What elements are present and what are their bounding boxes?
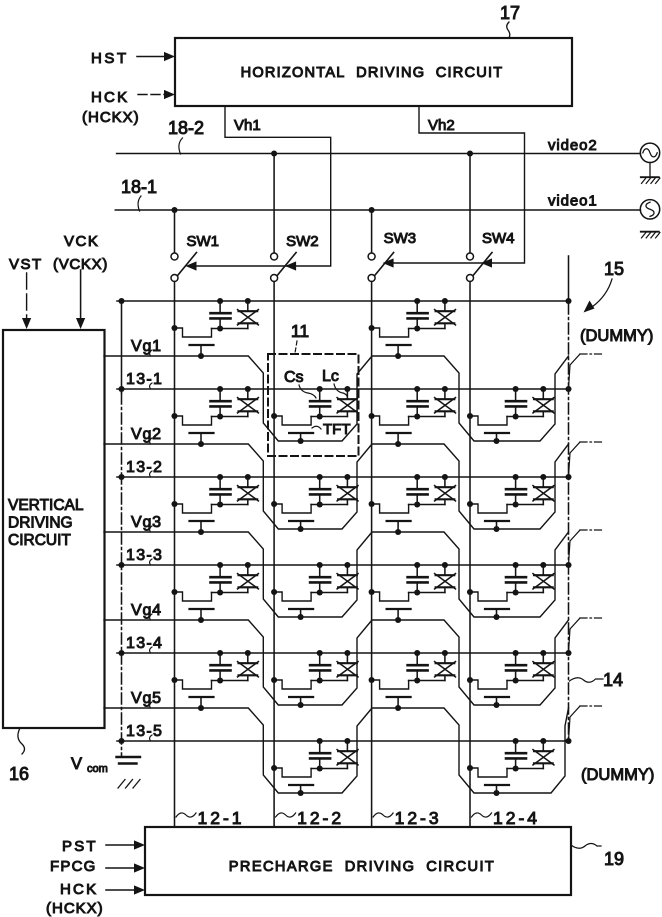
power Vcom symbol xyxy=(71,755,140,788)
junction TFT source tap on column (pixel row 6, col 4) xyxy=(467,765,473,771)
wire gate line Vg5 zigzag xyxy=(104,708,569,793)
liquid crystal Lc element (pixel row 4, col 1) xyxy=(238,565,259,593)
wire cell storage node (pixel row 3, col 3) xyxy=(409,504,445,506)
wire cell storage node (pixel row 5, col 1) xyxy=(212,680,248,682)
capacitor Cs lead (pixel row 5, col 3) xyxy=(416,653,418,665)
svg-text:HCK: HCK xyxy=(91,89,129,106)
input HCK label xyxy=(91,89,129,106)
label 13-5 with leader xyxy=(126,723,163,741)
liquid crystal Lc element (pixel row 2, col 1) xyxy=(238,389,259,417)
junction Cs top (pixel row 4, col 2) xyxy=(317,562,323,568)
junction Lc top (pixel row 2, col 1) xyxy=(245,386,251,392)
wire cell storage node (pixel row 2, col 4) xyxy=(507,416,543,418)
label 18-2 with leader xyxy=(168,118,204,154)
svg-text:HCK: HCK xyxy=(60,881,98,898)
transistor TFT gate (pixel row 5, col 3) xyxy=(387,697,411,708)
junction TFT gate on gate line (pixel row 5, col 3) xyxy=(395,705,401,711)
capacitor Cs plates (pixel row 2, col 1) xyxy=(211,401,231,416)
junction TFT gate on gate line (pixel row 4, col 4) xyxy=(493,614,499,620)
input VST label xyxy=(9,256,43,273)
capacitor Cs plates (pixel row 5, col 2) xyxy=(310,665,330,680)
junction Cs bottom (pixel row 3, col 4) xyxy=(513,501,519,507)
wire cell storage node (pixel row 4, col 4) xyxy=(507,592,543,594)
junction TFT gate on gate line (pixel row 4, col 3) xyxy=(395,617,401,623)
junction TFT gate on gate line (pixel row 3, col 1) xyxy=(198,529,204,535)
label 12-2 with leader xyxy=(276,808,345,828)
junction SW1 on video1 xyxy=(171,207,177,213)
transistor TFT source/drain (pixel row 6, col 4) xyxy=(470,768,507,777)
junction TFT source tap on column (pixel row 4, col 2) xyxy=(271,589,277,595)
transistor TFT gate (pixel row 2, col 4) xyxy=(485,433,509,441)
junction SW2 on video2 xyxy=(271,150,277,156)
svg-text:12-3: 12-3 xyxy=(395,808,442,828)
junction Cs bottom (pixel row 3, col 2) xyxy=(317,501,323,507)
transistor TFT source/drain (pixel row 5, col 4) xyxy=(470,680,507,689)
capacitor Cs plates (pixel row 3, col 2) xyxy=(310,489,330,504)
transistor TFT gate (pixel row 3, col 2) xyxy=(289,521,313,529)
label video1 xyxy=(548,193,598,210)
svg-text:video2: video2 xyxy=(548,137,598,154)
dashed unit pixel box 11 xyxy=(268,354,359,456)
junction Cs top (pixel row 5, col 1) xyxy=(217,650,223,656)
label Lc with leader xyxy=(322,368,347,396)
junction Lc top (pixel row 5, col 2) xyxy=(344,650,350,656)
transistor TFT gate (pixel row 4, col 1) xyxy=(190,609,214,620)
junction Lc top (pixel row 4, col 1) xyxy=(245,562,251,568)
junction TFT source tap on column (pixel row 6, col 2) xyxy=(271,765,277,771)
capacitor Cs lead (pixel row 3, col 1) xyxy=(219,477,221,489)
junction Vcom bus / 13-1 xyxy=(118,386,124,392)
vertical driving circuit U16 box xyxy=(3,330,105,728)
liquid crystal Lc element (pixel row 5, col 1) xyxy=(238,653,259,681)
svg-text:SW4: SW4 xyxy=(482,230,515,247)
svg-text:14: 14 xyxy=(603,670,623,690)
junction Cs top (pixel row 3, col 4) xyxy=(513,474,519,480)
wire cell storage node (pixel row 5, col 2) xyxy=(311,680,347,682)
capacitor Cs lead (pixel row 1, col 1) xyxy=(219,301,221,313)
transistor TFT source/drain (pixel row 1, col 1) xyxy=(175,328,212,337)
transistor TFT gate (pixel row 2, col 2) xyxy=(289,433,313,441)
junction TFT gate on gate line (pixel row 2, col 1) xyxy=(198,441,204,447)
junction Lc top (pixel row 3, col 4) xyxy=(540,474,546,480)
capacitor Cs lead (pixel row 4, col 2) xyxy=(319,565,321,577)
input FPCG label xyxy=(50,858,96,875)
junction Vcom bus / 13-2 xyxy=(118,474,124,480)
capacitor Cs plates (pixel row 3, col 1) xyxy=(211,489,231,504)
svg-text:CIRCUIT: CIRCUIT xyxy=(8,532,71,549)
label Cs with leader xyxy=(284,369,316,398)
liquid crystal Lc element (pixel row 6, col 2) xyxy=(337,741,358,769)
label TFT with leader xyxy=(312,421,351,438)
svg-text:PST: PST xyxy=(62,838,98,855)
transistor TFT source/drain (pixel row 5, col 1) xyxy=(175,680,212,689)
junction Cs bottom (pixel row 4, col 4) xyxy=(513,589,519,595)
liquid crystal Lc element (pixel row 4, col 2) xyxy=(337,565,358,593)
liquid crystal Lc element (pixel row 1, col 1) xyxy=(238,301,259,329)
switch SW2 xyxy=(271,154,297,282)
capacitor Cs plates (pixel row 5, col 1) xyxy=(211,665,231,680)
liquid crystal Lc element (pixel row 3, col 3) xyxy=(435,477,456,505)
wire storage line 13-1 xyxy=(117,388,569,390)
transistor TFT source/drain (pixel row 5, col 3) xyxy=(372,680,409,689)
wire signal line 12-3 xyxy=(371,282,373,828)
capacitor Cs lead (pixel row 2, col 4) xyxy=(515,389,517,401)
junction TFT source tap on column (pixel row 5, col 1) xyxy=(171,677,177,683)
junction Lc top (pixel row 6, col 4) xyxy=(540,738,546,744)
junction TFT gate on gate line (pixel row 1, col 3) xyxy=(395,353,401,359)
label 13-1 with leader xyxy=(126,371,163,389)
junction TFT gate on gate line (pixel row 3, col 3) xyxy=(395,529,401,535)
svg-text:12-1: 12-1 xyxy=(198,808,245,828)
svg-text:SW1: SW1 xyxy=(187,233,220,250)
junction Cs top (pixel row 2, col 4) xyxy=(513,386,519,392)
capacitor Cs plates (pixel row 6, col 4) xyxy=(506,753,526,768)
label Vh2 xyxy=(428,117,455,134)
transistor TFT gate (pixel row 4, col 3) xyxy=(387,609,411,620)
junction Lc top (pixel row 4, col 4) xyxy=(540,562,546,568)
junction Vcom bus / 13-4 xyxy=(118,650,124,656)
junction TFT source tap on column (pixel row 1, col 3) xyxy=(369,325,375,331)
junction Lc top (pixel row 2, col 4) xyxy=(540,386,546,392)
svg-text:16: 16 xyxy=(9,764,29,784)
junction Lc top (pixel row 2, col 3) xyxy=(442,386,448,392)
capacitor Cs plates (pixel row 3, col 3) xyxy=(408,489,428,504)
junction TFT gate on gate line (pixel row 2, col 3) xyxy=(395,441,401,447)
transistor TFT gate (pixel row 5, col 2) xyxy=(289,697,313,705)
junction Cs top (pixel row 5, col 4) xyxy=(513,650,519,656)
label Vg3 with leader xyxy=(131,514,162,532)
junction Cs bottom (pixel row 4, col 3) xyxy=(414,589,420,595)
input PST label xyxy=(62,838,98,855)
junction Cs top (pixel row 2, col 1) xyxy=(217,386,223,392)
junction Cs bottom (pixel row 6, col 4) xyxy=(513,765,519,771)
junction Cs bottom (pixel row 3, col 3) xyxy=(414,501,420,507)
label 12-1 with leader xyxy=(176,808,245,828)
transistor TFT source/drain (pixel row 3, col 3) xyxy=(372,504,409,513)
transistor TFT gate (pixel row 5, col 1) xyxy=(190,697,214,708)
junction TFT source tap on column (pixel row 1, col 1) xyxy=(171,325,177,331)
wire top dummy storage line xyxy=(117,300,569,302)
wire VCK arrow xyxy=(76,270,85,329)
label SW3 xyxy=(384,230,417,247)
transistor TFT source/drain (pixel row 4, col 1) xyxy=(175,592,212,601)
input HCK bottom label xyxy=(60,881,98,898)
liquid crystal Lc element (pixel row 2, col 3) xyxy=(435,389,456,417)
junction Cs top (pixel row 6, col 2) xyxy=(317,738,323,744)
wire gate line Vg3 zigzag xyxy=(104,532,569,617)
svg-text:SW3: SW3 xyxy=(384,230,417,247)
junction TFT source tap on column (pixel row 5, col 4) xyxy=(467,677,473,683)
capacitor Cs plates (pixel row 4, col 4) xyxy=(506,577,526,592)
junction Cs top (pixel row 2, col 3) xyxy=(414,386,420,392)
junction TFT source tap on column (pixel row 3, col 3) xyxy=(369,501,375,507)
svg-text:12-2: 12-2 xyxy=(297,808,344,828)
junction Cs bottom (pixel row 2, col 1) xyxy=(217,413,223,419)
wire gate line Vg1 zigzag xyxy=(104,356,569,441)
input (VCKX) label xyxy=(53,256,108,273)
wire row continuation stub at 13-1 xyxy=(569,354,605,389)
wire signal line 12-1 xyxy=(174,282,176,828)
junction TFT gate on gate line (pixel row 1, col 1) xyxy=(198,353,204,359)
liquid crystal Lc element (pixel row 3, col 1) xyxy=(238,477,259,505)
junction SW4 on video2 xyxy=(467,150,473,156)
svg-text:(DUMMY): (DUMMY) xyxy=(581,766,654,784)
label 18-1 with leader xyxy=(121,177,157,211)
label 17 with leader xyxy=(500,3,520,38)
wire cell storage node (pixel row 1, col 1) xyxy=(212,328,248,330)
node video2 line 18-2 xyxy=(117,153,641,155)
wire cell storage node (pixel row 5, col 4) xyxy=(507,680,543,682)
switch SW3 xyxy=(368,210,394,282)
svg-text:Vg5: Vg5 xyxy=(131,690,162,707)
junction Cs bottom (pixel row 5, col 4) xyxy=(513,677,519,683)
capacitor Cs lead (pixel row 2, col 1) xyxy=(219,389,221,401)
junction Lc top (pixel row 1, col 3) xyxy=(442,298,448,304)
junction Cs top (pixel row 5, col 2) xyxy=(317,650,323,656)
wire VST arrow xyxy=(22,273,31,329)
svg-text:13-3: 13-3 xyxy=(126,547,163,564)
wire cell storage node (pixel row 4, col 2) xyxy=(311,592,347,594)
label 11 with dashed leader xyxy=(291,321,309,353)
wire cell storage node (pixel row 3, col 2) xyxy=(311,504,347,506)
junction Lc top (pixel row 5, col 3) xyxy=(442,650,448,656)
junction right line / 13-2 xyxy=(565,474,571,480)
svg-text:Vh1: Vh1 xyxy=(234,117,261,134)
label Vg2 with leader xyxy=(131,426,162,444)
junction Cs top (pixel row 4, col 4) xyxy=(513,562,519,568)
transistor TFT gate (pixel row 3, col 3) xyxy=(387,521,411,532)
junction right line / 13-4 xyxy=(565,650,571,656)
liquid crystal Lc element (pixel row 1, col 3) xyxy=(435,301,456,329)
svg-text:com: com xyxy=(87,763,108,775)
junction TFT gate on gate line (pixel row 6, col 2) xyxy=(298,790,304,796)
capacitor Cs lead (pixel row 2, col 3) xyxy=(416,389,418,401)
transistor TFT source/drain (pixel row 2, col 1) xyxy=(175,416,212,425)
svg-text:Lc: Lc xyxy=(322,368,339,385)
wire row continuation stub at 13-3 xyxy=(569,530,605,565)
junction Vcom bus / top line xyxy=(118,298,124,304)
liquid crystal Lc element (pixel row 5, col 3) xyxy=(435,653,456,681)
svg-text:SW2: SW2 xyxy=(286,233,319,250)
wire FPCG arrow xyxy=(106,863,145,872)
liquid crystal Lc element (pixel row 2, col 4) xyxy=(533,389,554,417)
junction TFT source tap on column (pixel row 2, col 1) xyxy=(171,413,177,419)
junction Cs top (pixel row 2, col 2) xyxy=(317,386,323,392)
label 13-4 with leader xyxy=(126,635,163,653)
capacitor Cs lead (pixel row 6, col 4) xyxy=(515,741,517,753)
transistor TFT source/drain (pixel row 3, col 4) xyxy=(470,504,507,513)
capacitor Cs lead (pixel row 5, col 1) xyxy=(219,653,221,665)
transistor TFT gate (pixel row 1, col 3) xyxy=(387,345,411,356)
liquid crystal Lc element (pixel row 6, col 4) xyxy=(533,741,554,769)
junction Cs bottom (pixel row 2, col 3) xyxy=(414,413,420,419)
svg-text:15: 15 xyxy=(604,259,624,279)
junction TFT source tap on column (pixel row 2, col 2) xyxy=(271,413,277,419)
wire Vcom bus xyxy=(121,301,123,757)
svg-text:Vg2: Vg2 xyxy=(131,426,162,443)
label 13-2 with leader xyxy=(126,459,163,477)
junction right line / top line xyxy=(565,298,571,304)
junction Vcom bus / 13-3 xyxy=(118,562,124,568)
junction Lc top (pixel row 5, col 1) xyxy=(245,650,251,656)
transistor TFT source/drain (pixel row 3, col 2) xyxy=(274,504,311,513)
transistor TFT gate (pixel row 4, col 2) xyxy=(289,609,313,617)
capacitor Cs lead (pixel row 6, col 2) xyxy=(319,741,321,753)
label 13-3 with leader xyxy=(126,547,163,565)
wire right dummy common line 14/15 xyxy=(568,256,570,741)
junction Lc top (pixel row 1, col 1) xyxy=(245,298,251,304)
transistor TFT source/drain (pixel row 5, col 2) xyxy=(274,680,311,689)
junction Cs top (pixel row 5, col 3) xyxy=(414,650,420,656)
transistor TFT source/drain (pixel row 4, col 2) xyxy=(274,592,311,601)
capacitor Cs plates (pixel row 3, col 4) xyxy=(506,489,526,504)
capacitor Cs plates (pixel row 4, col 3) xyxy=(408,577,428,592)
svg-text:VERTICAL: VERTICAL xyxy=(8,497,84,514)
svg-text:13-4: 13-4 xyxy=(126,635,163,652)
svg-text:19: 19 xyxy=(604,849,624,869)
wire cell storage node (pixel row 2, col 1) xyxy=(212,416,248,418)
wire cell storage node (pixel row 2, col 2) xyxy=(311,416,347,418)
wire signal line 12-4 xyxy=(469,282,471,828)
junction TFT gate on gate line (pixel row 5, col 1) xyxy=(198,705,204,711)
junction Cs bottom (pixel row 5, col 3) xyxy=(414,677,420,683)
junction Lc top (pixel row 4, col 2) xyxy=(344,562,350,568)
svg-text:DRIVING: DRIVING xyxy=(8,515,73,532)
wire Vh2 control line from U17 to SW3/SW4 xyxy=(386,106,525,263)
svg-text:(HCKX): (HCKX) xyxy=(82,109,140,126)
junction right line / 13-3 xyxy=(565,562,571,568)
transistor TFT gate (pixel row 2, col 1) xyxy=(190,433,214,444)
junction TFT gate on gate line (pixel row 2, col 2) xyxy=(298,438,304,444)
liquid crystal Lc element (pixel row 3, col 4) xyxy=(533,477,554,505)
junction Vcom bus / 13-5 xyxy=(118,738,124,744)
svg-text:13-1: 13-1 xyxy=(126,371,163,388)
junction TFT source tap on column (pixel row 3, col 4) xyxy=(467,501,473,507)
junction Cs bottom (pixel row 4, col 1) xyxy=(217,589,223,595)
junction Cs bottom (pixel row 3, col 1) xyxy=(217,501,223,507)
svg-text:PRECHARGE DRIVING CIRCUIT: PRECHARGE DRIVING CIRCUIT xyxy=(229,859,495,875)
transistor TFT source/drain (pixel row 2, col 4) xyxy=(470,416,507,425)
liquid crystal Lc element (pixel row 2, col 2) xyxy=(337,389,358,417)
transistor TFT gate (pixel row 5, col 4) xyxy=(485,697,509,705)
wire cell storage node (pixel row 2, col 3) xyxy=(409,416,445,418)
capacitor Cs plates (pixel row 2, col 2) xyxy=(310,401,330,416)
junction Cs bottom (pixel row 5, col 2) xyxy=(317,677,323,683)
label 19 with leader xyxy=(571,844,624,870)
capacitor Cs plates (pixel row 2, col 3) xyxy=(408,401,428,416)
ground for video2 source xyxy=(641,163,660,184)
svg-text:(DUMMY): (DUMMY) xyxy=(580,327,653,345)
capacitor Cs lead (pixel row 4, col 1) xyxy=(219,565,221,577)
label (DUMMY) right bottom xyxy=(581,766,654,784)
wire signal line 12-2 xyxy=(273,282,275,828)
junction TFT source tap on column (pixel row 5, col 2) xyxy=(271,677,277,683)
junction Cs top (pixel row 3, col 3) xyxy=(414,474,420,480)
junction Lc top (pixel row 5, col 4) xyxy=(540,650,546,656)
junction Cs top (pixel row 4, col 1) xyxy=(217,562,223,568)
wire storage line 13-4 xyxy=(117,652,569,654)
label Vg4 with leader xyxy=(131,602,162,620)
junction Cs bottom (pixel row 4, col 2) xyxy=(317,589,323,595)
capacitor Cs lead (pixel row 5, col 4) xyxy=(515,653,517,665)
wire HCK arrow xyxy=(138,90,175,99)
svg-text:HST: HST xyxy=(91,50,129,67)
node video1 line 18-1 xyxy=(115,209,640,211)
capacitor Cs lead (pixel row 3, col 2) xyxy=(319,477,321,489)
wire row continuation stub at 13-4 xyxy=(569,618,605,653)
label Vg5 with leader xyxy=(131,690,162,708)
junction Lc top (pixel row 4, col 3) xyxy=(442,562,448,568)
transistor TFT gate (pixel row 3, col 4) xyxy=(485,521,509,529)
junction TFT source tap on column (pixel row 2, col 4) xyxy=(467,413,473,419)
junction Lc top (pixel row 3, col 2) xyxy=(344,474,350,480)
switch SW4 xyxy=(467,154,493,282)
wire Vh1 control line from U17 to SW1/SW2 xyxy=(189,106,331,266)
capacitor Cs lead (pixel row 5, col 2) xyxy=(319,653,321,665)
liquid crystal Lc element (pixel row 5, col 2) xyxy=(337,653,358,681)
switch SW1 xyxy=(171,210,197,282)
horizontal driving circuit U17 box xyxy=(175,38,572,106)
junction Cs bottom (pixel row 6, col 2) xyxy=(317,765,323,771)
input (HCKX) label xyxy=(82,109,140,126)
junction TFT gate on gate line (pixel row 4, col 1) xyxy=(198,617,204,623)
junction Cs top (pixel row 1, col 3) xyxy=(414,298,420,304)
wire cell storage node (pixel row 4, col 3) xyxy=(409,592,445,594)
wire storage line 13-2 xyxy=(117,476,569,478)
capacitor Cs plates (pixel row 1, col 1) xyxy=(211,313,231,328)
precharge driving circuit U19 box xyxy=(145,827,571,895)
input (HCKX) bottom label xyxy=(46,900,104,917)
input HST label xyxy=(91,50,129,67)
junction TFT source tap on column (pixel row 4, col 1) xyxy=(171,589,177,595)
svg-text:VCK: VCK xyxy=(64,233,99,250)
wire cell storage node (pixel row 5, col 3) xyxy=(409,680,445,682)
label SW2 xyxy=(286,233,319,250)
wire cell storage node (pixel row 1, col 3) xyxy=(409,328,445,330)
label 15 with arrow xyxy=(584,259,625,313)
transistor TFT gate (pixel row 3, col 1) xyxy=(190,521,214,532)
junction Cs bottom (pixel row 5, col 1) xyxy=(217,677,223,683)
label (DUMMY) right top xyxy=(580,327,653,345)
capacitor Cs lead (pixel row 4, col 3) xyxy=(416,565,418,577)
junction TFT gate on gate line (pixel row 2, col 4) xyxy=(493,438,499,444)
transistor TFT source/drain (pixel row 6, col 2) xyxy=(274,768,311,777)
label video2 xyxy=(548,137,598,154)
svg-text:Vg3: Vg3 xyxy=(131,514,162,531)
capacitor Cs lead (pixel row 1, col 3) xyxy=(416,301,418,313)
capacitor Cs plates (pixel row 2, col 4) xyxy=(506,401,526,416)
svg-text:HORIZONTAL DRIVING CIRCUIT: HORIZONTAL DRIVING CIRCUIT xyxy=(241,65,504,81)
junction Cs bottom (pixel row 1, col 3) xyxy=(414,325,420,331)
wire cell storage node (pixel row 3, col 4) xyxy=(507,504,543,506)
liquid crystal Lc element (pixel row 5, col 4) xyxy=(533,653,554,681)
capacitor Cs plates (pixel row 4, col 1) xyxy=(211,577,231,592)
junction TFT gate on gate line (pixel row 5, col 2) xyxy=(298,702,304,708)
junction TFT gate on gate line (pixel row 3, col 4) xyxy=(493,526,499,532)
junction TFT source tap on column (pixel row 4, col 3) xyxy=(369,589,375,595)
junction Cs top (pixel row 3, col 2) xyxy=(317,474,323,480)
junction Cs top (pixel row 6, col 4) xyxy=(513,738,519,744)
junction Cs top (pixel row 1, col 1) xyxy=(217,298,223,304)
ground for video1 source xyxy=(641,232,660,238)
label 16 with leader xyxy=(9,728,29,784)
junction TFT source tap on column (pixel row 3, col 1) xyxy=(171,501,177,507)
svg-text:VST: VST xyxy=(9,256,43,273)
wire gate line Vg4 zigzag xyxy=(104,620,569,705)
transistor TFT gate (pixel row 4, col 4) xyxy=(485,609,509,617)
liquid crystal Lc element (pixel row 4, col 4) xyxy=(533,565,554,593)
wire HST arrow xyxy=(137,52,175,61)
